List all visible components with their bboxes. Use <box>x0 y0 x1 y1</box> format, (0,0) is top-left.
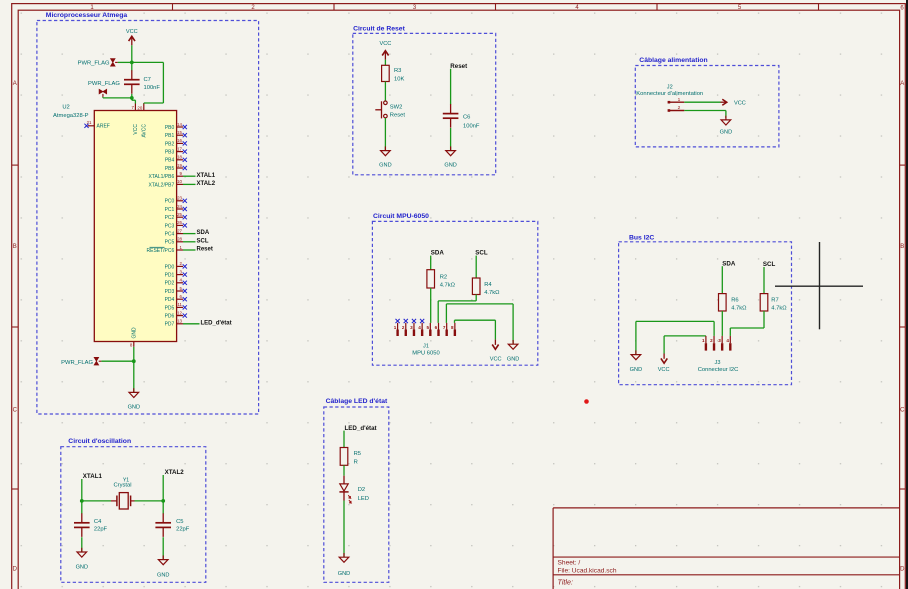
wire PWR_FLAG1 to junction <box>118 61 132 63</box>
wire junction B to VCC pin <box>132 98 136 104</box>
no-connect PB4 <box>183 158 187 162</box>
svg-text:PWR_FLAG: PWR_FLAG <box>88 81 120 87</box>
svg-text:VCC: VCC <box>658 367 670 373</box>
svg-text:Konnecteur d'alimentation: Konnecteur d'alimentation <box>636 91 703 97</box>
svg-text:7: 7 <box>443 325 446 330</box>
svg-text:J2: J2 <box>667 85 673 91</box>
wire J3 pin2 to GND <box>636 321 714 354</box>
no-connect PD6 <box>183 314 187 318</box>
svg-text:PB5: PB5 <box>165 166 175 172</box>
wire VCC to junction <box>131 45 133 62</box>
wire label to R5 <box>343 431 345 448</box>
svg-text:GND: GND <box>338 571 350 577</box>
pin PC3 pad 26 <box>165 220 183 229</box>
note Microprocesseur Atmega <box>46 12 128 19</box>
svg-text:GND: GND <box>128 405 140 411</box>
svg-text:Crystal: Crystal <box>113 483 131 489</box>
pin PB2 pad 16 <box>165 138 183 147</box>
power VCC <box>126 29 138 45</box>
svg-text:PD5: PD5 <box>165 305 175 311</box>
svg-text:PC0: PC0 <box>165 199 175 205</box>
wire R6 to J3 pin3 <box>721 311 723 336</box>
wire C5 to GND <box>162 537 164 559</box>
ground GND bus <box>630 350 642 372</box>
no-connect PD0 <box>183 264 187 268</box>
svg-text:VCC: VCC <box>734 101 746 107</box>
pin PB1 pad 15 <box>165 130 183 139</box>
pin PD0 pad 2 <box>165 261 183 270</box>
svg-text:2: 2 <box>710 338 713 343</box>
note Bus I2C <box>629 235 654 242</box>
no-connect PC0 <box>183 199 187 203</box>
svg-text:1: 1 <box>394 325 397 330</box>
capacitor C6 <box>443 104 480 129</box>
svg-text:22pF: 22pF <box>94 527 108 533</box>
no-connect PD2 <box>183 281 187 285</box>
power VCC reset <box>379 41 391 60</box>
wire Reset <box>183 249 196 251</box>
no-connect PB3 <box>183 150 187 154</box>
svg-text:C5: C5 <box>176 519 183 525</box>
svg-text:PC2: PC2 <box>165 215 175 221</box>
svg-text:22pF: 22pF <box>176 527 190 533</box>
svg-text:R5: R5 <box>354 451 361 457</box>
dashed box Microprocesseur Atmega <box>37 21 259 415</box>
wire J2 pin2 to GND <box>684 111 726 119</box>
svg-text:GND: GND <box>444 163 456 169</box>
wire SCL <box>183 241 196 243</box>
svg-text:PC4: PC4 <box>165 232 175 238</box>
svg-text:1: 1 <box>678 97 681 103</box>
pin PC1 pad 24 <box>165 204 183 213</box>
svg-text:U2: U2 <box>62 105 69 111</box>
no-connect PC1 <box>183 207 187 211</box>
no-connect PB1 <box>183 133 187 137</box>
svg-text:5: 5 <box>426 325 429 330</box>
svg-text:PD3: PD3 <box>165 289 175 295</box>
pin PC2 pad 25 <box>165 212 183 221</box>
capacitor C7 <box>124 70 160 94</box>
svg-text:8: 8 <box>451 325 454 330</box>
svg-text:C4: C4 <box>94 519 102 525</box>
label XTAL1 <box>197 173 216 179</box>
wire crystal to xtal2 <box>135 500 164 502</box>
svg-text:4.7kΩ: 4.7kΩ <box>731 306 747 312</box>
svg-text:Circuit MPU-6050: Circuit MPU-6050 <box>373 213 429 220</box>
svg-text:SDA: SDA <box>431 250 445 257</box>
svg-text:Reset: Reset <box>197 247 213 253</box>
svg-text:R3: R3 <box>394 68 401 74</box>
svg-text:3: 3 <box>718 338 721 343</box>
svg-text:23: 23 <box>177 196 182 201</box>
svg-text:VCC: VCC <box>379 41 391 47</box>
ground GND mcu <box>128 388 140 411</box>
svg-text:PD7: PD7 <box>165 322 175 328</box>
wire AVCC net <box>132 62 164 103</box>
svg-text:PC5: PC5 <box>165 240 175 246</box>
svg-text:4: 4 <box>726 338 729 343</box>
svg-text:PB2: PB2 <box>165 141 175 147</box>
no-connect J1 pin1 <box>396 319 400 323</box>
svg-text:4.7kΩ: 4.7kΩ <box>440 282 456 288</box>
no-connect J1 pin3 <box>412 319 416 323</box>
capacitor C4 <box>74 513 108 537</box>
svg-text:Circuit de Reset: Circuit de Reset <box>353 25 405 32</box>
ground GND osc-right <box>157 555 169 578</box>
svg-text:15: 15 <box>177 130 182 135</box>
svg-text:Microprocesseur Atmega: Microprocesseur Atmega <box>46 12 128 19</box>
label XTAL2 <box>197 181 216 187</box>
svg-text:Connecteur I2C: Connecteur I2C <box>698 367 739 373</box>
wire SCL to R7 <box>763 267 765 294</box>
pin PC5 pad 28 <box>165 237 183 246</box>
svg-text:D: D <box>900 567 905 573</box>
svg-text:GND: GND <box>76 565 88 571</box>
pin PD6 pad 12 <box>165 310 183 319</box>
pin PB3 pad 17 <box>165 146 183 155</box>
label SCL mpu <box>475 250 488 257</box>
svg-text:PC1: PC1 <box>165 207 175 213</box>
note Câblage LED d'état <box>326 398 388 405</box>
svg-text:PD2: PD2 <box>165 281 175 287</box>
svg-text:C: C <box>13 408 18 414</box>
pin PD2 pad 4 <box>165 278 183 287</box>
svg-text:J3: J3 <box>715 360 721 366</box>
pin VCC pad 7 <box>131 104 139 135</box>
note Câblage alimentation <box>639 57 707 64</box>
IC U2 ATmega328-P <box>53 105 177 342</box>
svg-text:PWR_FLAG: PWR_FLAG <box>61 360 93 366</box>
svg-text:PD4: PD4 <box>165 297 175 303</box>
svg-text:LED: LED <box>358 496 369 502</box>
svg-text:PD6: PD6 <box>165 314 175 320</box>
svg-text:GND: GND <box>720 130 732 136</box>
wire LED_d'état <box>183 323 200 325</box>
ground GND reset-left <box>379 146 391 168</box>
svg-text:PB0: PB0 <box>165 125 175 131</box>
no-connect PD1 <box>183 273 187 277</box>
origin marker red dot <box>584 399 589 404</box>
svg-text:11: 11 <box>177 302 182 307</box>
resistor R2 <box>427 270 456 289</box>
no-connect PC2 <box>183 215 187 219</box>
svg-text:SCL: SCL <box>197 238 209 244</box>
wire R7 to J3 pin4 <box>730 311 764 336</box>
dashed box Bus I2C <box>619 242 792 385</box>
power flag PWR_FLAG3 <box>61 357 101 366</box>
wire SDA to R2 <box>430 256 432 270</box>
junction A <box>130 61 134 65</box>
pin PB0 pad 14 <box>165 122 183 131</box>
svg-text:C7: C7 <box>144 77 151 83</box>
svg-text:C6: C6 <box>463 115 470 121</box>
wire R4 to J1 pin6 <box>438 295 476 323</box>
crosshair cursor <box>775 242 863 329</box>
svg-text:100nF: 100nF <box>144 85 161 91</box>
svg-text:XTAL2/PB7: XTAL2/PB7 <box>149 182 175 188</box>
no-connect J1 pin2 <box>404 319 408 323</box>
wire SDA to R6 <box>721 266 723 293</box>
no-connect J1 pin4 <box>420 319 424 323</box>
ground GND osc-left <box>76 548 88 571</box>
pin XTAL2/PB7 pad 10 <box>149 179 183 188</box>
svg-text:LED_d'état: LED_d'état <box>345 425 377 432</box>
svg-text:Circuit d'oscillation: Circuit d'oscillation <box>68 438 131 445</box>
svg-text:XTAL1: XTAL1 <box>197 173 216 179</box>
svg-text:Bus I2C: Bus I2C <box>629 235 654 242</box>
label XTAL2 osc <box>165 469 185 476</box>
ground GND mpu <box>507 340 519 362</box>
svg-text:RESET/PC6: RESET/PC6 <box>147 248 175 254</box>
title block <box>553 508 900 589</box>
svg-text:Câblage LED d'état: Câblage LED d'état <box>326 398 388 405</box>
svg-text:10K: 10K <box>394 76 404 82</box>
no-connect AREF <box>84 124 88 128</box>
note Circuit de Reset <box>353 25 405 32</box>
dashed box Circuit d'oscillation <box>61 447 206 583</box>
no-connect PD4 <box>183 297 187 301</box>
no-connect PD5 <box>183 305 187 309</box>
wire PWR_FLAG3 to junction C <box>101 360 133 362</box>
wire xtal1 to crystal <box>82 500 111 502</box>
pin PD5 pad 11 <box>165 302 183 311</box>
ground GND alimentation <box>720 116 732 136</box>
svg-text:26: 26 <box>177 220 182 225</box>
svg-text:XTAL1: XTAL1 <box>83 473 103 480</box>
svg-text:2: 2 <box>402 325 405 330</box>
svg-text:XTAL2: XTAL2 <box>197 181 216 187</box>
svg-text:Sheet: /: Sheet: / <box>558 560 581 567</box>
capacitor C5 <box>155 513 189 537</box>
wire SDA <box>183 233 196 235</box>
svg-text:PD1: PD1 <box>165 273 175 279</box>
power flag PWR_FLAG2 <box>88 81 120 97</box>
note Circuit d'oscillation <box>68 438 131 445</box>
svg-text:14: 14 <box>177 122 182 127</box>
wire xtal1 to C4 <box>81 501 83 514</box>
ground GND reset-right <box>444 146 456 168</box>
svg-text:24: 24 <box>177 204 182 209</box>
wire junction C to GND <box>133 361 135 392</box>
svg-text:R: R <box>354 460 358 466</box>
svg-text:A: A <box>900 81 904 87</box>
wire Reset to C6 <box>450 69 452 105</box>
wire GND pin to junction C <box>133 347 135 361</box>
label LED_d'état <box>201 320 232 326</box>
wire xtal2 to C5 <box>162 501 164 514</box>
pin PC0 pad 23 <box>165 196 183 205</box>
wire XTAL1 <box>183 175 196 177</box>
resistor R7 <box>760 294 787 312</box>
dashed box Câblage alimentation <box>635 66 779 147</box>
connector J1 MPU 6050 <box>394 323 455 357</box>
svg-text:3: 3 <box>410 325 413 330</box>
svg-text:PD0: PD0 <box>165 264 175 270</box>
svg-text:B: B <box>13 244 17 250</box>
svg-text:VCC: VCC <box>133 124 139 135</box>
svg-text:18: 18 <box>177 155 182 160</box>
wire J3 pin1 to VCC <box>664 336 706 354</box>
svg-text:12: 12 <box>177 310 182 315</box>
svg-text:2: 2 <box>678 105 681 111</box>
svg-text:100nF: 100nF <box>463 123 480 129</box>
svg-text:AVCC: AVCC <box>142 124 148 138</box>
wire C7 to junction B <box>131 94 133 98</box>
note Circuit MPU-6050 <box>373 213 429 220</box>
svg-text:1: 1 <box>702 338 705 343</box>
svg-text:16: 16 <box>177 138 182 143</box>
svg-text:PB1: PB1 <box>165 133 175 139</box>
svg-text:PC3: PC3 <box>165 223 175 229</box>
pin PB4 pad 18 <box>165 155 183 164</box>
resistor R6 <box>719 294 748 312</box>
svg-text:SCL: SCL <box>475 250 488 257</box>
no-connect PB5 <box>183 166 187 170</box>
label Reset <box>197 247 213 253</box>
svg-text:SDA: SDA <box>722 260 736 267</box>
power VCC alimentation <box>721 99 746 106</box>
pin GND pad 8 <box>130 327 138 347</box>
label LED_d'état <box>345 425 377 432</box>
power flag PWR_FLAG1 <box>78 59 118 67</box>
svg-text:File: Ucad.kicad.sch: File: Ucad.kicad.sch <box>558 568 617 575</box>
svg-text:6: 6 <box>435 325 438 330</box>
svg-text:GND: GND <box>630 367 642 373</box>
svg-text:GND: GND <box>157 573 169 579</box>
svg-text:R7: R7 <box>771 297 778 303</box>
svg-text:GND: GND <box>507 356 519 362</box>
svg-text:10: 10 <box>177 179 182 184</box>
label SCL <box>197 238 209 244</box>
svg-text:AREF: AREF <box>97 124 110 130</box>
wire XTAL2 down <box>162 475 164 501</box>
svg-text:PWR_FLAG: PWR_FLAG <box>78 60 110 66</box>
wire junction to C7 <box>131 62 133 70</box>
svg-text:MPU 6050: MPU 6050 <box>412 351 439 357</box>
wire R3 to SW2 <box>384 82 386 102</box>
svg-text:XTAL1/PB6: XTAL1/PB6 <box>149 174 175 180</box>
power VCC mpu <box>490 340 502 363</box>
LED D2 <box>339 476 369 503</box>
resistor R3 <box>382 65 405 82</box>
svg-text:R6: R6 <box>731 297 738 303</box>
wire SCL to R4 <box>475 256 477 278</box>
svg-text:25: 25 <box>177 212 182 217</box>
ground GND led <box>338 553 350 577</box>
svg-text:J1: J1 <box>423 343 429 349</box>
junction xtal1 <box>80 499 84 503</box>
svg-text:27: 27 <box>177 228 182 233</box>
wire R5 to D2 <box>343 465 345 475</box>
pin XTAL1/PB6 pad 9 <box>149 171 183 180</box>
wire PWR_FLAG2 to junction B <box>103 96 132 99</box>
svg-text:13: 13 <box>177 319 182 324</box>
pin PB5 pad 19 <box>165 163 183 172</box>
svg-text:SDA: SDA <box>197 230 210 236</box>
wire SW2 to GND <box>384 118 386 150</box>
svg-text:Atmega328-P: Atmega328-P <box>53 113 89 119</box>
svg-text:20: 20 <box>137 106 142 111</box>
resistor R4 <box>472 278 500 296</box>
switch SW2 Reset <box>375 101 405 119</box>
no-connect PB0 <box>183 125 187 129</box>
wire C4 to GND <box>81 537 83 552</box>
svg-text:4.7kΩ: 4.7kΩ <box>484 290 500 296</box>
svg-text:28: 28 <box>177 237 182 242</box>
pin PD1 pad 3 <box>165 269 183 278</box>
crystal Y1 <box>111 478 135 510</box>
wire R2 to J1 pin5 <box>430 288 432 323</box>
resistor R5 <box>340 448 361 466</box>
wire D2 to GND <box>343 501 345 558</box>
svg-text:XTAL2: XTAL2 <box>165 469 185 476</box>
wire J1 pin8 to VCC <box>455 320 496 339</box>
pin AVCC pad 20 <box>137 104 147 138</box>
svg-text:4: 4 <box>418 325 421 330</box>
svg-text:LED_d'état: LED_d'état <box>201 320 232 326</box>
svg-text:PB3: PB3 <box>165 150 175 156</box>
svg-text:19: 19 <box>177 163 182 168</box>
dashed box Circuit MPU-6050 <box>372 221 537 365</box>
label SCL bus <box>763 261 776 268</box>
connector J2 Konnecteur d'alimentation <box>636 85 703 112</box>
dashed box Circuit de Reset <box>353 33 496 174</box>
connector J3 Connecteur I2C <box>698 336 739 373</box>
wire J1 pin7 to GND <box>446 304 513 344</box>
label SDA <box>197 230 210 236</box>
svg-text:VCC: VCC <box>490 356 502 362</box>
label Reset net <box>450 63 467 70</box>
junction B <box>130 96 134 100</box>
wire XTAL2 <box>183 183 196 185</box>
svg-text:GND: GND <box>379 163 391 169</box>
power VCC bus <box>658 354 670 373</box>
svg-text:B: B <box>900 244 904 250</box>
svg-text:C: C <box>900 408 905 414</box>
label XTAL1 osc <box>83 473 103 480</box>
pin AREF pad 21 <box>87 120 110 130</box>
wire VCC to R3 <box>384 60 386 66</box>
svg-text:4.7kΩ: 4.7kΩ <box>771 306 787 312</box>
wire J2 pin1 to VCC <box>684 101 720 103</box>
svg-text:PB4: PB4 <box>165 158 175 164</box>
svg-text:D: D <box>13 567 18 573</box>
svg-text:SW2: SW2 <box>390 105 403 111</box>
svg-text:A: A <box>13 81 17 87</box>
label SDA mpu <box>431 250 445 257</box>
wire XTAL1 down <box>81 479 83 501</box>
svg-text:VCC: VCC <box>126 29 138 35</box>
no-connect PD3 <box>183 289 187 293</box>
junction xtal2 <box>161 499 165 503</box>
pin PD4 pad 6 <box>165 294 183 303</box>
no-connect PB2 <box>183 141 187 145</box>
wire C6 to GND <box>450 128 452 150</box>
pin RESET/PC6 pad 1 <box>147 245 183 254</box>
junction C <box>132 359 136 363</box>
label SDA bus <box>722 260 736 267</box>
pin PD3 pad 5 <box>165 286 183 295</box>
svg-text:17: 17 <box>177 146 182 151</box>
svg-text:Reset: Reset <box>390 113 406 119</box>
pin PD7 pad 13 <box>165 319 183 328</box>
svg-text:GND: GND <box>132 327 138 339</box>
dashed box Câblage LED d'état <box>324 407 389 582</box>
no-connect PC3 <box>183 223 187 227</box>
svg-text:Câblage alimentation: Câblage alimentation <box>639 57 707 64</box>
svg-text:Title:: Title: <box>558 577 574 586</box>
svg-text:D2: D2 <box>358 487 365 493</box>
